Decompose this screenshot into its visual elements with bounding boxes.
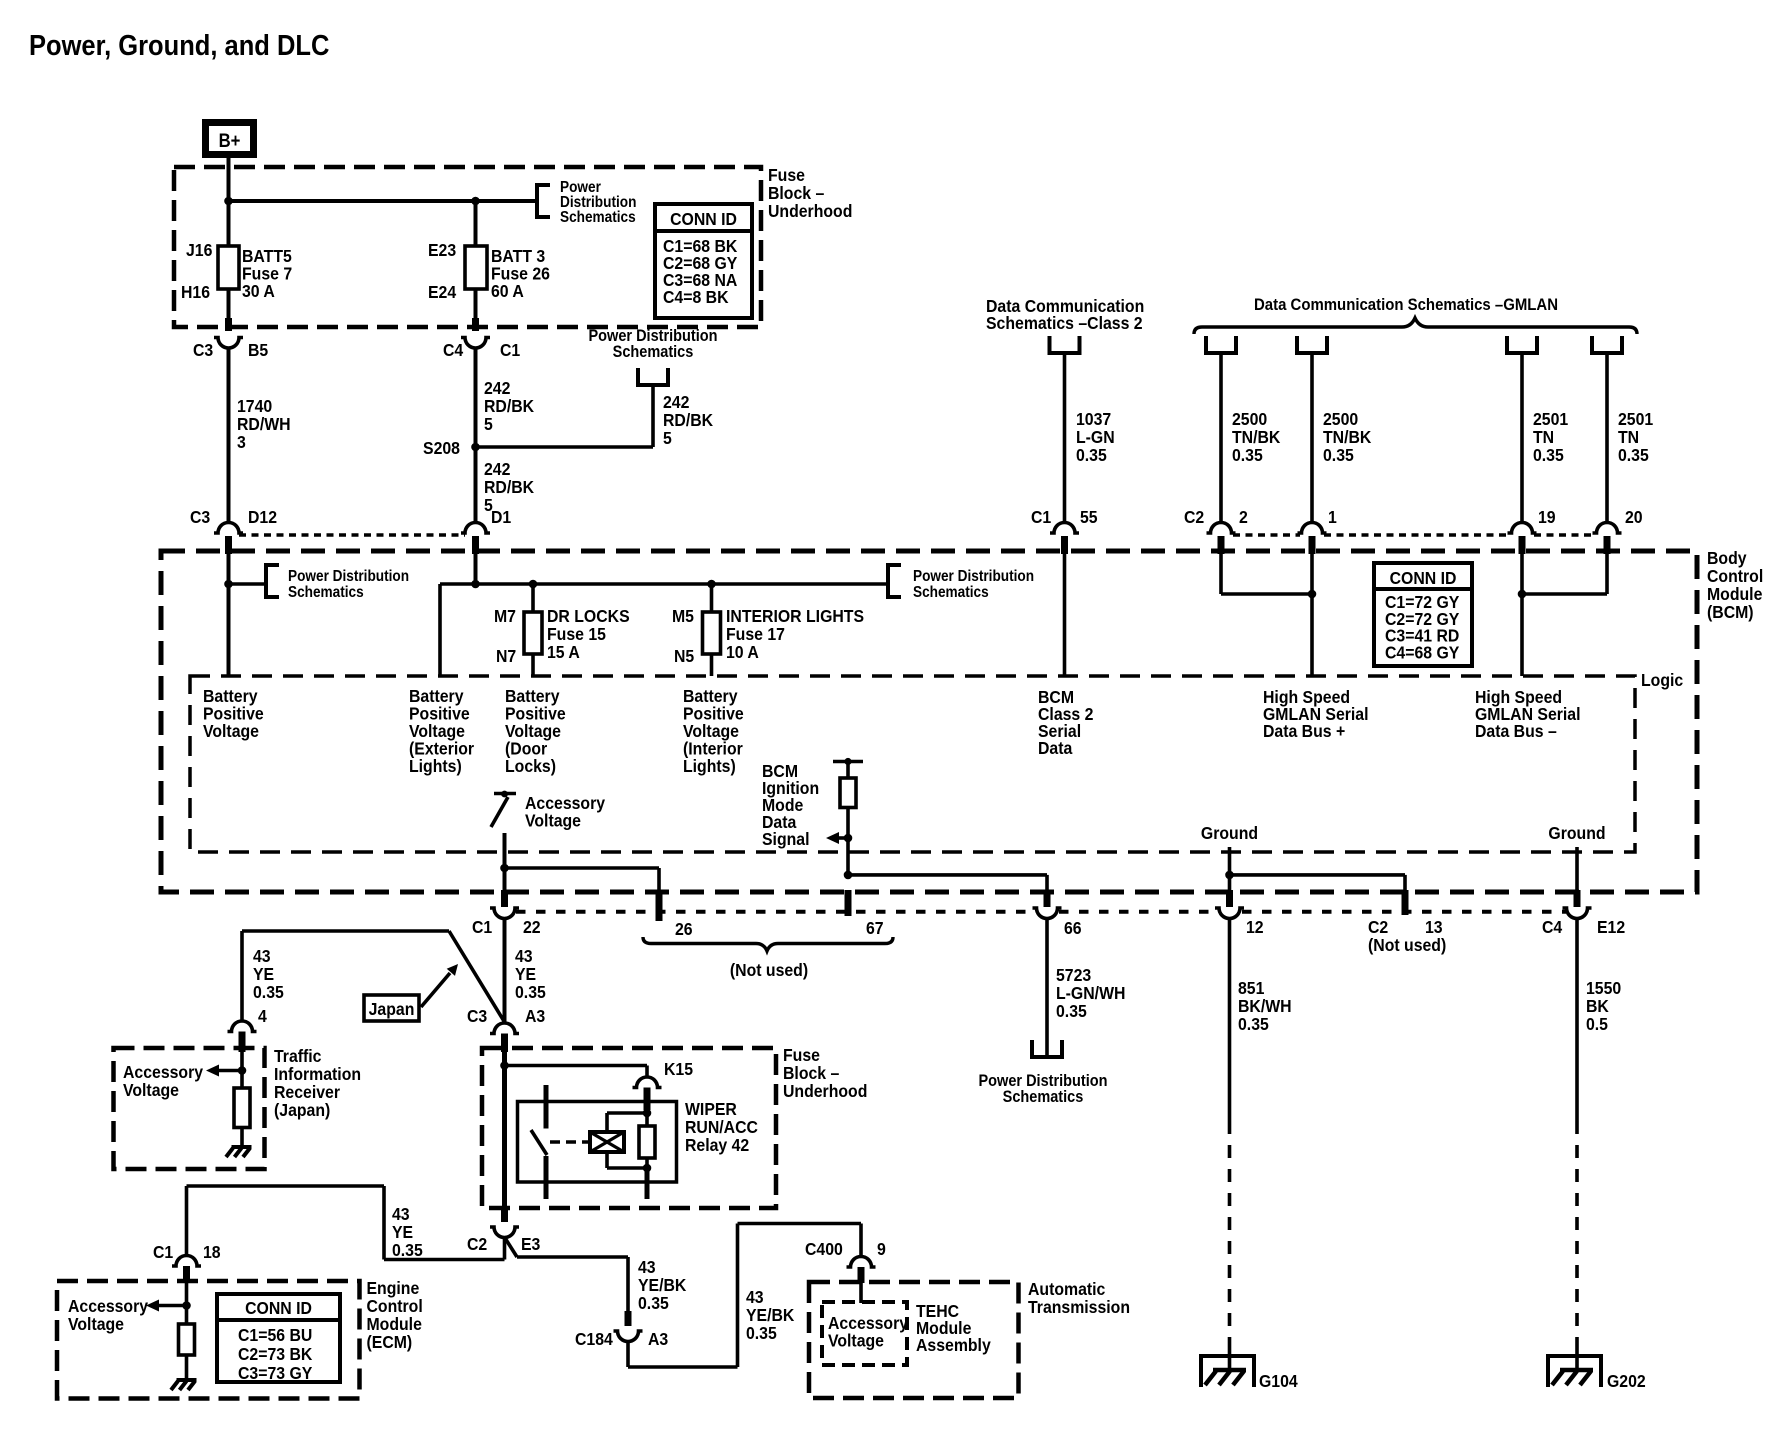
svg-text:Lights): Lights): [409, 756, 462, 776]
svg-text:Data: Data: [1038, 738, 1073, 758]
svg-text:D12: D12: [248, 507, 277, 527]
svg-text:C184: C184: [575, 1329, 613, 1349]
svg-text:Locks): Locks): [505, 756, 556, 776]
svg-text:CONN ID: CONN ID: [245, 1298, 312, 1318]
svg-text:Ground: Ground: [1201, 823, 1258, 843]
svg-text:Data Bus –: Data Bus –: [1475, 721, 1557, 741]
svg-text:C1: C1: [1031, 507, 1051, 527]
svg-text:0.35: 0.35: [1076, 445, 1107, 465]
svg-text:0.5: 0.5: [1586, 1014, 1608, 1034]
svg-text:0.35: 0.35: [1618, 445, 1649, 465]
svg-text:Schematics: Schematics: [613, 343, 694, 361]
svg-text:A3: A3: [525, 1006, 545, 1026]
svg-text:0.35: 0.35: [1056, 1001, 1087, 1021]
svg-text:Voltage: Voltage: [828, 1331, 884, 1351]
svg-text:M5: M5: [672, 606, 694, 626]
svg-text:3: 3: [237, 432, 246, 452]
svg-text:Transmission: Transmission: [1028, 1297, 1130, 1317]
svg-text:N5: N5: [674, 646, 694, 666]
svg-text:Schematics: Schematics: [913, 584, 989, 601]
svg-text:C3: C3: [193, 340, 213, 360]
svg-text:Underhood: Underhood: [783, 1081, 867, 1101]
svg-text:Power Distribution: Power Distribution: [288, 568, 409, 585]
svg-text:C1: C1: [153, 1242, 173, 1262]
svg-text:Data Bus +: Data Bus +: [1263, 721, 1345, 741]
svg-text:2: 2: [1239, 507, 1248, 527]
svg-text:Schematics: Schematics: [288, 584, 364, 601]
svg-text:(ECM): (ECM): [367, 1332, 413, 1352]
svg-text:5: 5: [484, 414, 493, 434]
svg-text:Voltage: Voltage: [525, 811, 581, 831]
svg-text:Power, Ground, and DLC: Power, Ground, and DLC: [29, 28, 329, 61]
svg-text:19: 19: [1538, 507, 1556, 527]
svg-text:5: 5: [663, 428, 672, 448]
svg-text:H16: H16: [181, 282, 210, 302]
svg-text:C3: C3: [467, 1006, 487, 1026]
svg-text:Ground: Ground: [1548, 823, 1605, 843]
svg-text:4: 4: [258, 1006, 267, 1026]
svg-text:20: 20: [1625, 507, 1643, 527]
svg-text:K15: K15: [664, 1059, 693, 1079]
svg-text:9: 9: [877, 1239, 886, 1259]
svg-text:12: 12: [1246, 917, 1264, 937]
svg-text:55: 55: [1080, 507, 1098, 527]
svg-text:C2: C2: [467, 1234, 487, 1254]
svg-text:S208: S208: [423, 438, 460, 458]
svg-text:E3: E3: [521, 1234, 540, 1254]
svg-text:Logic: Logic: [1641, 670, 1683, 690]
svg-text:0.35: 0.35: [1323, 445, 1354, 465]
svg-text:60 A: 60 A: [491, 281, 524, 301]
svg-text:G104: G104: [1259, 1371, 1298, 1391]
svg-text:(BCM): (BCM): [1707, 602, 1754, 622]
svg-text:0.35: 0.35: [1238, 1014, 1269, 1034]
svg-text:CONN ID: CONN ID: [1390, 568, 1457, 588]
svg-text:C1: C1: [500, 340, 520, 360]
svg-text:0.35: 0.35: [392, 1240, 423, 1260]
svg-text:30 A: 30 A: [242, 281, 275, 301]
svg-text:C2: C2: [1184, 507, 1204, 527]
svg-text:C4=8 BK: C4=8 BK: [663, 287, 729, 307]
svg-text:Signal: Signal: [762, 829, 809, 849]
svg-text:M7: M7: [494, 606, 516, 626]
svg-text:E24: E24: [428, 282, 457, 302]
svg-text:Schematics –Class 2: Schematics –Class 2: [986, 313, 1143, 333]
svg-text:0.35: 0.35: [746, 1323, 777, 1343]
svg-text:C1: C1: [472, 917, 492, 937]
svg-text:G202: G202: [1607, 1371, 1646, 1391]
svg-text:(Not used): (Not used): [1368, 935, 1446, 955]
svg-text:0.35: 0.35: [638, 1293, 669, 1313]
svg-text:Voltage: Voltage: [68, 1314, 124, 1334]
svg-text:0.35: 0.35: [253, 982, 284, 1002]
svg-text:Voltage: Voltage: [203, 721, 259, 741]
svg-text:C3=73 GY: C3=73 GY: [238, 1363, 313, 1383]
svg-text:Lights): Lights): [683, 756, 736, 776]
svg-text:C4: C4: [443, 340, 464, 360]
svg-text:66: 66: [1064, 918, 1082, 938]
svg-text:B+: B+: [219, 130, 241, 151]
svg-text:(Japan): (Japan): [274, 1100, 330, 1120]
svg-text:E23: E23: [428, 240, 456, 260]
svg-text:Schematics: Schematics: [560, 209, 636, 226]
svg-text:C3: C3: [190, 507, 210, 527]
svg-text:67: 67: [866, 918, 884, 938]
svg-text:Relay 42: Relay 42: [685, 1135, 749, 1155]
svg-text:Japan: Japan: [369, 999, 415, 1019]
svg-text:0.35: 0.35: [1533, 445, 1564, 465]
svg-text:Voltage: Voltage: [123, 1080, 179, 1100]
svg-text:18: 18: [203, 1242, 221, 1262]
svg-text:C400: C400: [805, 1239, 843, 1259]
svg-text:J16: J16: [186, 240, 212, 260]
svg-text:10 A: 10 A: [726, 642, 759, 662]
svg-text:Underhood: Underhood: [768, 201, 852, 221]
svg-text:B5: B5: [248, 340, 268, 360]
svg-text:Schematics: Schematics: [1003, 1088, 1084, 1106]
svg-text:CONN ID: CONN ID: [670, 209, 737, 229]
svg-text:(Not used): (Not used): [730, 960, 808, 980]
svg-text:C1=56 BU: C1=56 BU: [238, 1325, 312, 1345]
svg-text:Assembly: Assembly: [916, 1335, 991, 1355]
svg-text:C4: C4: [1542, 917, 1563, 937]
svg-text:Power Distribution: Power Distribution: [913, 568, 1034, 585]
svg-text:26: 26: [675, 919, 693, 939]
svg-text:0.35: 0.35: [515, 982, 546, 1002]
svg-text:A3: A3: [648, 1329, 668, 1349]
svg-text:0.35: 0.35: [1232, 445, 1263, 465]
svg-text:22: 22: [523, 917, 541, 937]
svg-text:Data Communication Schematics: Data Communication Schematics –GMLAN: [1254, 296, 1558, 314]
svg-text:D1: D1: [491, 507, 511, 527]
svg-text:E12: E12: [1597, 917, 1625, 937]
svg-text:C2=73 BK: C2=73 BK: [238, 1344, 313, 1364]
svg-text:C4=68 GY: C4=68 GY: [1385, 642, 1460, 662]
svg-text:1: 1: [1328, 507, 1337, 527]
svg-text:15 A: 15 A: [547, 642, 580, 662]
svg-text:N7: N7: [496, 646, 516, 666]
